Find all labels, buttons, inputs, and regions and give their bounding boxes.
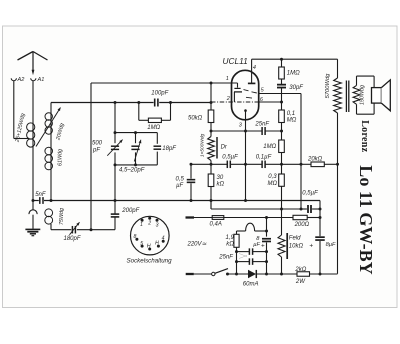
svg-text:MΩ: MΩ (287, 118, 297, 124)
svg-text:0,5µF: 0,5µF (302, 191, 318, 197)
svg-text:kΩ: kΩ (226, 242, 234, 248)
svg-text:1: 1 (226, 76, 229, 82)
svg-text:kΩ: kΩ (217, 182, 225, 188)
svg-text:1MΩ: 1MΩ (147, 125, 160, 131)
svg-text:1,9: 1,9 (225, 235, 234, 241)
svg-text:+: + (261, 243, 265, 250)
svg-text:4: 4 (162, 236, 165, 242)
svg-text:50kΩ: 50kΩ (188, 115, 203, 121)
svg-text:10kΩ: 10kΩ (289, 244, 304, 250)
svg-text:Lo 11 GW-BY: Lo 11 GW-BY (356, 165, 376, 274)
svg-text:18pF: 18pF (162, 146, 176, 152)
svg-text:8: 8 (134, 234, 137, 240)
svg-text:2W: 2W (295, 279, 306, 285)
svg-text:1MΩ: 1MΩ (287, 70, 300, 76)
svg-text:30pF: 30pF (289, 85, 303, 91)
svg-text:Sockelschaltung: Sockelschaltung (127, 258, 173, 265)
svg-text:5nF: 5nF (35, 192, 46, 198)
svg-text:0,1: 0,1 (287, 111, 295, 117)
svg-text:60mA: 60mA (243, 281, 259, 287)
svg-text:1: 1 (140, 222, 143, 228)
svg-text:1×500Wdg: 1×500Wdg (199, 134, 205, 158)
svg-text:4,5–20pF: 4,5–20pF (119, 168, 145, 174)
svg-text:30: 30 (217, 175, 224, 181)
svg-text:Feld: Feld (289, 235, 301, 241)
svg-text:0,5µF: 0,5µF (222, 154, 238, 160)
svg-text:180pF: 180pF (64, 236, 81, 242)
svg-text:4: 4 (253, 65, 256, 71)
svg-text:75Wdg: 75Wdg (59, 208, 65, 225)
svg-text:1MΩ: 1MΩ (263, 144, 276, 150)
svg-text:0,4A: 0,4A (210, 222, 222, 228)
svg-text:25nF: 25nF (218, 255, 233, 261)
svg-text:61Wdg: 61Wdg (58, 149, 64, 166)
svg-text:Lorenz: Lorenz (359, 120, 370, 152)
svg-text:0,1µF: 0,1µF (256, 154, 272, 160)
svg-text:500: 500 (92, 141, 103, 147)
svg-text:µF: µF (253, 242, 260, 248)
svg-text:0,3: 0,3 (268, 174, 277, 180)
svg-text:3: 3 (156, 222, 159, 228)
svg-text:2kΩ: 2kΩ (294, 267, 306, 273)
svg-text:100pF: 100pF (151, 91, 168, 97)
svg-text:5: 5 (140, 241, 143, 247)
svg-text:20kΩ: 20kΩ (307, 156, 323, 162)
svg-text:H: H (155, 241, 159, 247)
svg-text:2: 2 (147, 220, 151, 226)
svg-text:pF: pF (92, 148, 100, 154)
svg-text:200pF: 200pF (121, 208, 139, 214)
svg-text:150Wdg: 150Wdg (360, 85, 366, 105)
svg-text:2: 2 (226, 96, 230, 102)
svg-text:8µF: 8µF (326, 242, 336, 248)
svg-text:+: + (309, 242, 313, 249)
svg-text:200Ω: 200Ω (294, 222, 310, 228)
svg-text:A1: A1 (37, 77, 45, 83)
svg-text:220V≃: 220V≃ (187, 241, 208, 247)
svg-text:Dr: Dr (221, 145, 228, 151)
svg-text:5700Wdg: 5700Wdg (325, 73, 331, 99)
svg-text:µF: µF (176, 183, 183, 189)
svg-text:25nF: 25nF (254, 121, 269, 127)
svg-text:A2: A2 (17, 77, 26, 83)
svg-text:H: H (147, 243, 151, 249)
svg-text:UCL11: UCL11 (223, 56, 248, 66)
svg-text:MΩ: MΩ (268, 181, 278, 187)
svg-text:0,5: 0,5 (175, 177, 184, 183)
